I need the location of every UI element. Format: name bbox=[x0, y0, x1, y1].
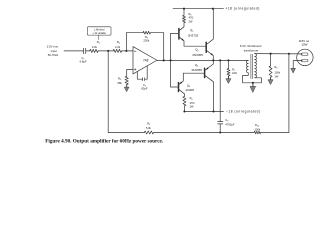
svg-text:Figure 4.90. Output amplifier: Figure 4.90. Output amplifier for 60Hz p… bbox=[45, 139, 164, 145]
svg-text:R2: R2 bbox=[117, 40, 121, 45]
svg-text:68k: 68k bbox=[118, 81, 123, 85]
svg-text:R6: R6 bbox=[190, 96, 193, 101]
svg-text:50-70Hz: 50-70Hz bbox=[48, 53, 59, 57]
svg-text:C3: C3 bbox=[225, 118, 228, 123]
svg-text:−18 (unregulated): −18 (unregulated) bbox=[226, 110, 261, 114]
svg-text:2N3725: 2N3725 bbox=[188, 33, 199, 37]
svg-text:22Ω: 22Ω bbox=[232, 71, 237, 75]
svg-text:+18 (unregulated): +18 (unregulated) bbox=[225, 7, 260, 11]
svg-text:2N3055: 2N3055 bbox=[192, 53, 203, 57]
svg-text:230k: 230k bbox=[143, 39, 149, 43]
svg-text:R8: R8 bbox=[274, 65, 277, 70]
svg-text:Q4: Q4 bbox=[195, 63, 199, 68]
svg-text:6.3V, 3A filament: 6.3V, 3A filament bbox=[240, 44, 262, 48]
svg-text:R10: R10 bbox=[255, 123, 259, 128]
svg-text:2W: 2W bbox=[189, 19, 193, 23]
svg-text:100k: 100k bbox=[274, 70, 280, 74]
svg-text:1W: 1W bbox=[274, 74, 278, 78]
svg-text:2.2k: 2.2k bbox=[92, 45, 98, 49]
svg-text:transformer: transformer bbox=[244, 49, 259, 53]
svg-text:Q1: Q1 bbox=[190, 28, 193, 33]
svg-text:R9: R9 bbox=[147, 122, 150, 127]
svg-text:2.2k: 2.2k bbox=[115, 45, 121, 49]
svg-text:6.8µF: 6.8µF bbox=[80, 60, 87, 64]
svg-text:R4: R4 bbox=[118, 76, 122, 81]
svg-text:82pF: 82pF bbox=[141, 86, 147, 90]
svg-text:R1: R1 bbox=[97, 40, 101, 45]
svg-text:47Ω: 47Ω bbox=[189, 16, 194, 20]
svg-text:4700µF: 4700µF bbox=[225, 122, 235, 126]
svg-text:10W: 10W bbox=[301, 42, 307, 46]
svg-text:5.0k: 5.0k bbox=[146, 126, 152, 130]
svg-text:47Ω: 47Ω bbox=[190, 101, 195, 105]
svg-text:+ 1k variable: + 1k variable bbox=[92, 32, 106, 35]
svg-text:748: 748 bbox=[143, 59, 149, 63]
svg-text:MJ2955: MJ2955 bbox=[192, 68, 203, 72]
svg-text:100k: 100k bbox=[255, 128, 261, 132]
svg-text:40408: 40408 bbox=[186, 88, 195, 92]
svg-text:2W: 2W bbox=[190, 105, 194, 109]
svg-text:Q2: Q2 bbox=[195, 48, 198, 53]
